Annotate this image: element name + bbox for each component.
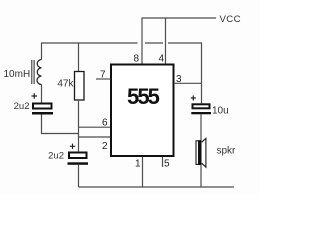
inductor L1 coil [37, 60, 42, 85]
pin 1 wire down to ground rail [142, 157, 144, 187]
wire resistor top leg [78, 43, 80, 71]
inductor L1 core lines [32, 60, 34, 84]
wire resistor bottom leg down to C2 [78, 100, 80, 152]
svg-text:8: 8 [133, 54, 139, 65]
svg-text:3: 3 [176, 74, 182, 85]
svg-text:47k: 47k [57, 79, 74, 90]
svg-text:2: 2 [102, 141, 108, 152]
wire output branch vertical [201, 43, 203, 103]
wire C1 down and right to node [42, 115, 79, 134]
svg-text:555: 555 [127, 84, 160, 109]
svg-text:4: 4 [158, 54, 164, 65]
wire pin6 [79, 126, 111, 128]
svg-text:5: 5 [164, 159, 170, 170]
svg-text:6: 6 [102, 117, 108, 128]
svg-text:1: 1 [135, 159, 141, 170]
speaker LS1 magnet bar [198, 140, 201, 165]
speaker LS1 cone [202, 138, 206, 167]
wire left branch top vertical [41, 43, 43, 60]
wire pin4 drop from VCC [165, 18, 167, 64]
svg-text:2u2: 2u2 [48, 151, 64, 162]
wire speaker to ground rail [200, 165, 202, 187]
svg-text:2u2: 2u2 [14, 101, 30, 112]
capacitor C2 body (2u2) [69, 153, 87, 159]
capacitor C2 polarity plus [70, 144, 76, 149]
wire C2 to ground rail [78, 165, 80, 187]
resistor R1 body [75, 72, 85, 101]
pin 5 stub wire [162, 157, 164, 167]
capacitor C1 polarity plus [32, 93, 38, 98]
wire top crossover segment right [168, 42, 202, 44]
capacitor C3 polarity plus [191, 96, 196, 101]
wire inductor to C1 [41, 85, 43, 103]
pin 7 stub wire [96, 78, 111, 80]
wire VCC rail [142, 17, 216, 19]
svg-text:10u: 10u [212, 106, 229, 117]
svg-text:10mH: 10mH [4, 69, 31, 80]
wire top crossover segment middle [145, 42, 163, 44]
wire pin2 [79, 136, 111, 138]
svg-text:7: 7 [100, 70, 106, 81]
wire C3 to speaker [200, 114, 202, 140]
wire top crossover segment left [42, 42, 138, 44]
capacitor C1 bottom plate [32, 112, 53, 115]
ground rail bottom wire [79, 186, 234, 188]
svg-text:spkr: spkr [217, 146, 237, 157]
capacitor C3 body (10u) [193, 104, 210, 108]
wire pin8 drop from VCC [141, 18, 143, 64]
speaker LS1 frame [196, 141, 201, 165]
svg-text:VCC: VCC [220, 14, 241, 25]
capacitor C1 body (2u2) [33, 104, 52, 109]
pin 3 wire to output node [174, 82, 202, 84]
capacitor C3 bottom plate [191, 112, 211, 114]
IC U1 555 body [111, 65, 174, 157]
capacitor C2 bottom plate [68, 162, 89, 165]
